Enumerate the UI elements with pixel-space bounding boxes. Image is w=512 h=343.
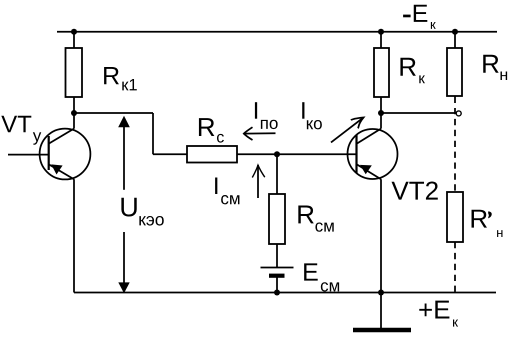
label Esm bbox=[304, 263, 339, 291]
wire Rc to VT2 base bbox=[237, 153, 357, 155]
label -Ek bbox=[403, 5, 436, 29]
wire Rk to collector node bbox=[380, 97, 382, 113]
wire collector node to step bbox=[74, 112, 153, 114]
node VT2 collector junction bbox=[378, 110, 384, 116]
resistor Rsm body bbox=[269, 194, 285, 244]
node battery bottom junction bbox=[274, 290, 280, 296]
resistor Rn body bbox=[447, 48, 462, 96]
label R'n bbox=[472, 210, 503, 237]
label +Ek bbox=[419, 301, 458, 327]
arrow Ukeo lower shaft bbox=[123, 232, 125, 288]
wire step down bbox=[152, 113, 154, 154]
transistor VT1 emitter arrow (PNP) bbox=[51, 164, 62, 174]
label Ism bbox=[215, 177, 239, 204]
arrow Iko barbs bbox=[351, 118, 364, 129]
resistor Rk body bbox=[374, 48, 389, 97]
wire Rsm to battery bbox=[276, 244, 278, 267]
wire top rail to Rk bbox=[380, 32, 382, 48]
arrow Iko shaft bbox=[331, 118, 364, 143]
label Rn bbox=[483, 55, 507, 80]
wire VT1 base lead bbox=[8, 154, 49, 156]
arrow Upo up arrowhead bbox=[118, 116, 130, 128]
arrow Ipo shaft bbox=[244, 132, 276, 134]
arrow Ism barbs bbox=[252, 165, 264, 177]
node junction top-left bbox=[71, 29, 77, 35]
label Rk1 bbox=[104, 67, 137, 90]
label VT2 bbox=[392, 181, 438, 199]
transistor VT1 emitter diagonal bbox=[49, 165, 74, 180]
wire VT1 emitter down bbox=[73, 179, 75, 292]
transistor VT1 collector diagonal bbox=[49, 129, 74, 144]
node bias junction bbox=[274, 151, 280, 157]
transistor VT2 circle bbox=[348, 129, 398, 179]
wire dashed load line lower bbox=[454, 242, 456, 293]
arrow Ukeo down arrowhead bbox=[118, 282, 129, 293]
wire bias node to Rsm bbox=[276, 154, 278, 194]
wire top rail -E net bbox=[57, 31, 497, 33]
wire Rk1 to collector node bbox=[73, 97, 75, 113]
wire bottom rail +E net bbox=[74, 292, 496, 294]
label VTu bbox=[1, 116, 41, 145]
resistor Rc body bbox=[187, 146, 237, 163]
node junction top Rk bbox=[378, 29, 384, 35]
label Rk bbox=[400, 58, 425, 83]
transistor VT1 base bar bbox=[48, 136, 50, 170]
wire Rn bottom stub bbox=[454, 96, 456, 103]
label Ipo bbox=[255, 102, 278, 129]
transistor VT1 circle bbox=[40, 129, 91, 180]
node output terminal open circle bbox=[456, 111, 461, 116]
wire VT2 collector up bbox=[380, 113, 382, 129]
wire dashed load line upper bbox=[454, 108, 456, 192]
node collector VT1 junction bbox=[71, 110, 77, 116]
wire step to Rc bbox=[153, 153, 187, 155]
wire VT1 collector up bbox=[73, 113, 75, 129]
transistor VT2 emitter arrow (PNP) bbox=[360, 165, 372, 174]
arrow Ism shaft bbox=[257, 165, 259, 198]
node junction top Rn bbox=[452, 29, 458, 35]
label Ukeo bbox=[121, 198, 163, 226]
transistor VT2 emitter diagonal bbox=[357, 165, 381, 180]
label Iko bbox=[302, 102, 322, 129]
wire VT2 collector to output bbox=[381, 112, 456, 114]
wire battery to bottom rail bbox=[276, 278, 278, 293]
wire VT2 emitter to ground bbox=[380, 293, 382, 331]
battery Esm long plate bbox=[261, 267, 294, 269]
label Rc bbox=[199, 118, 224, 143]
resistor Rk1 body bbox=[66, 48, 83, 97]
wire top rail to Rn bbox=[454, 32, 456, 48]
ground bar bbox=[353, 328, 411, 333]
arrow Ipo barbs bbox=[244, 127, 253, 140]
arrow Ukeo upper shaft bbox=[123, 124, 125, 190]
wire top rail to Rk1 bbox=[73, 32, 75, 48]
resistor R'n body bbox=[447, 192, 463, 242]
transistor VT2 collector diagonal bbox=[357, 129, 381, 144]
transistor VT2 base bar bbox=[355, 135, 357, 173]
node VT2 emitter junction bbox=[378, 290, 384, 296]
label Rsm bbox=[298, 206, 333, 232]
battery Esm short plate bbox=[269, 274, 285, 278]
wire VT2 emitter down bbox=[380, 179, 382, 292]
